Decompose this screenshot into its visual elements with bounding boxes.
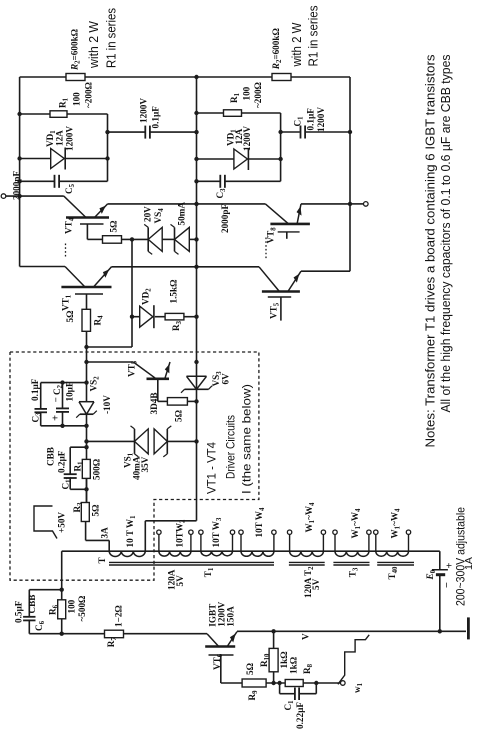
- svg-text:5Ω: 5Ω: [245, 663, 255, 675]
- svg-text:2000pF: 2000pF: [220, 204, 230, 233]
- svg-text:5V: 5V: [175, 575, 185, 587]
- svg-text:Notes: Transformer T1 drives: Notes: Transformer T1 drives a board con…: [424, 55, 438, 448]
- svg-text:1−2Ω: 1−2Ω: [114, 605, 124, 627]
- svg-text:~500Ω: ~500Ω: [77, 596, 87, 622]
- svg-text:1kΩ: 1kΩ: [279, 651, 289, 668]
- svg-text:0.1µF: 0.1µF: [151, 106, 161, 129]
- svg-text:1200V: 1200V: [65, 126, 75, 151]
- svg-text:5Ω: 5Ω: [109, 221, 119, 233]
- svg-text:6V: 6V: [221, 373, 231, 385]
- svg-text:Driver Circuits: Driver Circuits: [224, 415, 238, 479]
- svg-text:1kΩ: 1kΩ: [289, 657, 299, 674]
- svg-text:12A: 12A: [55, 130, 65, 146]
- svg-text:1200V: 1200V: [316, 107, 326, 132]
- svg-text:5Ω: 5Ω: [174, 410, 184, 422]
- svg-text:with 2 W: with 2 W: [86, 20, 101, 69]
- svg-text:with 2 W: with 2 W: [289, 22, 304, 68]
- svg-text:100: 100: [67, 599, 77, 613]
- svg-text:All of the high frequency capa: All of the high frequency capacitors of …: [439, 55, 453, 413]
- svg-text:CBB: CBB: [46, 447, 56, 466]
- svg-text:5V: 5V: [311, 578, 321, 590]
- svg-text:2000pF: 2000pF: [12, 171, 22, 200]
- svg-text:T: T: [97, 557, 107, 563]
- svg-text:50mA: 50mA: [177, 202, 187, 226]
- svg-text:10µF: 10µF: [65, 381, 75, 401]
- svg-text:5Ω: 5Ω: [91, 505, 101, 517]
- svg-text:200~300V adjustable: 200~300V adjustable: [454, 507, 468, 606]
- svg-text:+: +: [51, 415, 62, 421]
- svg-text:150A: 150A: [226, 606, 236, 627]
- svg-text:3A: 3A: [100, 527, 110, 539]
- svg-text:−: −: [51, 397, 61, 402]
- svg-text:1200V: 1200V: [242, 126, 252, 151]
- svg-text:0.5µF: 0.5µF: [14, 600, 24, 623]
- svg-text:100: 100: [242, 86, 252, 100]
- svg-text:0.1µF: 0.1µF: [306, 108, 316, 131]
- svg-text:500Ω: 500Ω: [92, 459, 102, 480]
- svg-text:35V: 35V: [140, 456, 150, 472]
- svg-text:100: 100: [72, 92, 82, 106]
- svg-text:5Ω: 5Ω: [65, 311, 75, 323]
- svg-text:CBB: CBB: [27, 595, 37, 614]
- svg-text:-10V: -10V: [102, 395, 112, 414]
- svg-text:~200Ω: ~200Ω: [253, 82, 263, 108]
- svg-text:3D4B: 3D4B: [149, 393, 159, 415]
- svg-text:−: −: [442, 582, 453, 588]
- svg-text:R1 in series: R1 in series: [306, 5, 321, 66]
- svg-text:1A: 1A: [463, 557, 475, 570]
- svg-text:0.22µF: 0.22µF: [295, 702, 305, 729]
- svg-text:VT1 - VT4: VT1 - VT4: [205, 442, 219, 494]
- svg-text:1.5kΩ: 1.5kΩ: [169, 280, 179, 304]
- svg-text:R1 in series: R1 in series: [104, 8, 119, 68]
- svg-text:20V: 20V: [143, 206, 153, 222]
- svg-text:~200Ω: ~200Ω: [84, 82, 94, 108]
- svg-text:+50V: +50V: [57, 512, 67, 533]
- svg-text:I (the same below): I (the same below): [240, 384, 254, 494]
- svg-text:1200V: 1200V: [139, 98, 149, 123]
- svg-text:0.2µF: 0.2µF: [57, 450, 67, 473]
- svg-text:0.1µF: 0.1µF: [30, 378, 40, 401]
- svg-text:V: V: [301, 633, 311, 640]
